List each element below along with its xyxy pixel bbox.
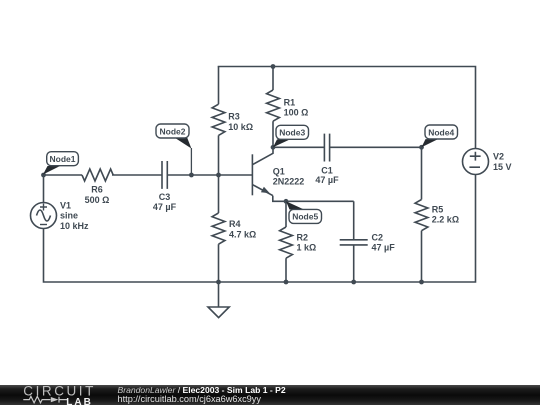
wire R3 top [218, 67, 220, 105]
svg-text:Node4: Node4 [428, 127, 454, 137]
wire node1 to R6 [44, 174, 83, 176]
junction base R3 R4 [216, 173, 221, 178]
svg-text:47 µF: 47 µF [372, 243, 396, 253]
wire R1 bottom [272, 121, 274, 147]
svg-text:2N2222: 2N2222 [273, 177, 305, 187]
wire top rail [218, 67, 476, 149]
wire R2 bottom [285, 258, 287, 282]
V1 plus [40, 204, 47, 211]
svg-text:R6: R6 [91, 185, 103, 195]
svg-text:100 Ω: 100 Ω [284, 108, 309, 118]
resistor R4 [212, 213, 225, 244]
svg-text:Q1: Q1 [273, 166, 285, 176]
svg-text:R5: R5 [432, 204, 444, 214]
svg-text:V2: V2 [493, 152, 504, 162]
node dot Node3 [271, 145, 276, 150]
svg-text:R4: R4 [229, 219, 241, 229]
wire collector to C1 [273, 146, 324, 148]
svg-text:C2: C2 [372, 232, 384, 242]
wire R6 to C3 [112, 174, 162, 176]
circuitlab logo [0, 385, 100, 405]
resistor R3 [212, 104, 225, 135]
node label Node2 box [156, 124, 189, 138]
junction top rail R1 [271, 64, 276, 69]
footer credit line [118, 385, 286, 395]
wire R2 top [285, 201, 287, 227]
resistor R5 [415, 200, 428, 231]
voltage source V2 circle [463, 149, 489, 175]
node dot Node4 [419, 145, 424, 150]
wire C3 to base [167, 174, 252, 176]
svg-text:15 V: 15 V [493, 162, 512, 172]
node label Node5 [286, 201, 304, 209]
wire C1 to node4 [330, 146, 422, 148]
wire C2 top [353, 201, 355, 240]
svg-text:1 kΩ: 1 kΩ [297, 243, 317, 253]
wire R1 top [272, 67, 274, 91]
transistor Q1 base bar [251, 154, 253, 195]
wire emitter horizontal [273, 196, 354, 202]
transistor Q1 emitter arrow [261, 187, 270, 194]
V1 minus [40, 224, 47, 226]
node label Node3 [273, 139, 290, 147]
junction R2 bottom [284, 280, 289, 285]
svg-text:47 µF: 47 µF [153, 202, 177, 212]
transistor Q1 collector [252, 147, 273, 164]
ground stub [218, 282, 220, 307]
svg-text:500 Ω: 500 Ω [85, 195, 110, 205]
resistor R6 [82, 169, 113, 181]
ground triangle [208, 307, 229, 318]
transistor Q1 emitter [252, 185, 272, 196]
wire R5 top [421, 147, 423, 199]
svg-text:R2: R2 [297, 232, 309, 242]
wire R3 bottom [218, 135, 220, 175]
junction ground [216, 280, 221, 285]
svg-text:10 kΩ: 10 kΩ [228, 122, 253, 132]
footer url line [118, 394, 261, 404]
voltage source V1 circle [31, 203, 57, 229]
node dot Node5 [284, 199, 289, 204]
V1 sine symbol [37, 210, 51, 221]
svg-text:4.7 kΩ: 4.7 kΩ [229, 230, 256, 240]
svg-text:Node3: Node3 [279, 128, 305, 138]
capacitor C1 plates [324, 134, 329, 162]
svg-text:R1: R1 [284, 97, 296, 107]
svg-text:V1: V1 [60, 200, 71, 210]
wire R5 bottom [421, 231, 423, 282]
svg-text:sine: sine [60, 211, 78, 221]
footer bar [0, 385, 540, 405]
svg-text:Node1: Node1 [50, 154, 76, 164]
junction C2 bottom [351, 280, 356, 285]
node dot Node2 [189, 173, 194, 178]
wire C2 bottom [353, 245, 355, 282]
node label Node4 [422, 139, 439, 147]
svg-text:C1: C1 [321, 165, 333, 175]
junction R5 bottom [419, 280, 424, 285]
svg-text:2.2 kΩ: 2.2 kΩ [432, 215, 459, 225]
svg-text:LAB: LAB [66, 397, 93, 405]
V2 minus [469, 166, 480, 168]
node label Node2 pointer wedge [174, 137, 191, 148]
svg-text:C3: C3 [159, 192, 171, 202]
resistor R1 [267, 90, 280, 121]
wire bottom rail [44, 175, 476, 283]
node label Node1 [43, 166, 60, 175]
resistor R2 [280, 227, 293, 258]
wire R4 top [218, 175, 220, 213]
capacitor C3 plates [162, 161, 167, 189]
svg-text:Node2: Node2 [160, 126, 186, 136]
svg-text:47 µF: 47 µF [315, 175, 339, 185]
svg-text:Node5: Node5 [292, 212, 318, 222]
capacitor C2 plates [340, 240, 368, 245]
svg-text:10 kHz: 10 kHz [60, 221, 89, 231]
node dot Node1 [41, 173, 46, 178]
node label Node2 leader wire [190, 148, 192, 175]
wire left rail top [43, 175, 45, 203]
svg-text:R3: R3 [228, 112, 240, 122]
V2 plus [470, 152, 481, 161]
wire R4 bottom [218, 244, 220, 282]
